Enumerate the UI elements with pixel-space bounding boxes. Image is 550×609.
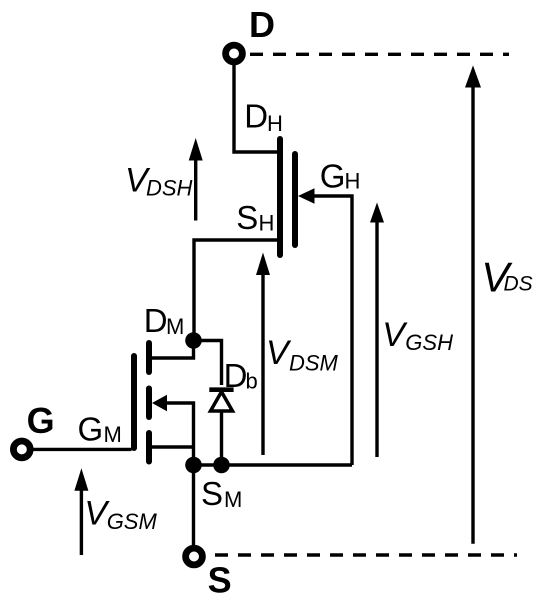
svg-text:V: V <box>382 316 408 354</box>
svg-text:DSH: DSH <box>146 176 193 201</box>
svg-text:M: M <box>166 314 184 339</box>
svg-text:D: D <box>244 98 268 135</box>
svg-text:H: H <box>259 211 275 236</box>
svg-text:DS: DS <box>504 272 533 295</box>
svg-text:GSH: GSH <box>405 330 453 355</box>
svg-text:H: H <box>345 169 361 194</box>
svg-text:S: S <box>201 475 223 512</box>
svg-text:M: M <box>104 422 122 447</box>
svg-text:G: G <box>320 158 346 195</box>
svg-text:M: M <box>224 487 242 512</box>
svg-text:S: S <box>208 560 232 601</box>
svg-text:D: D <box>144 302 168 339</box>
svg-text:G: G <box>27 400 55 441</box>
svg-text:b: b <box>246 369 258 394</box>
svg-text:D: D <box>224 357 248 394</box>
svg-text:D: D <box>249 4 275 45</box>
svg-text:DSM: DSM <box>289 350 339 375</box>
svg-text:GSM: GSM <box>107 509 158 534</box>
svg-text:S: S <box>236 199 258 236</box>
svg-text:G: G <box>78 410 104 447</box>
svg-text:H: H <box>267 111 283 136</box>
